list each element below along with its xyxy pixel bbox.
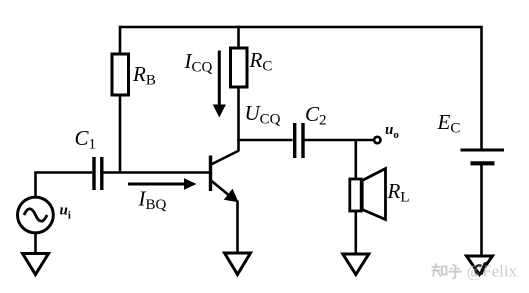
wire source to ground <box>34 233 37 253</box>
wire C2 to output terminal <box>305 139 374 142</box>
current arrow ICQ <box>184 49 226 118</box>
node UCQ label <box>245 101 281 128</box>
wire battery to ground <box>480 165 483 257</box>
capacitor C2 <box>295 102 327 158</box>
ac source ui <box>18 197 71 233</box>
wire RC bottom lead / collector node <box>237 87 240 151</box>
wire output node to RL <box>354 140 357 179</box>
watermark felix text <box>467 262 518 281</box>
watermark artifact inside ground <box>475 262 487 275</box>
ground (source) <box>23 254 49 275</box>
ground (RL) <box>343 254 369 275</box>
ground (emitter) <box>225 253 251 275</box>
capacitor C1 <box>75 126 102 190</box>
wire collector node to C2 <box>237 139 292 142</box>
wire top supply bus <box>120 26 482 29</box>
resistor RB <box>112 54 156 95</box>
terminal uo <box>374 122 399 143</box>
wire RB top lead <box>119 26 122 55</box>
battery EC <box>437 110 505 163</box>
wire top bus to battery <box>480 26 483 149</box>
watermark zhihu glyphs <box>432 264 462 279</box>
svg-text:@Felix: @Felix <box>467 262 518 281</box>
wire base (C1 to transistor base) <box>104 171 210 174</box>
speaker load RL <box>350 169 410 220</box>
transistor Q1 <box>211 151 240 203</box>
wire RL to ground <box>354 211 357 255</box>
wire source to C1 <box>36 173 93 197</box>
wire RC top lead <box>237 26 240 49</box>
wire emitter to ground <box>236 201 239 254</box>
resistor RC <box>231 48 273 87</box>
ground (battery) <box>467 256 493 275</box>
current arrow IBQ <box>128 178 197 213</box>
wire RB bottom lead <box>119 95 122 174</box>
